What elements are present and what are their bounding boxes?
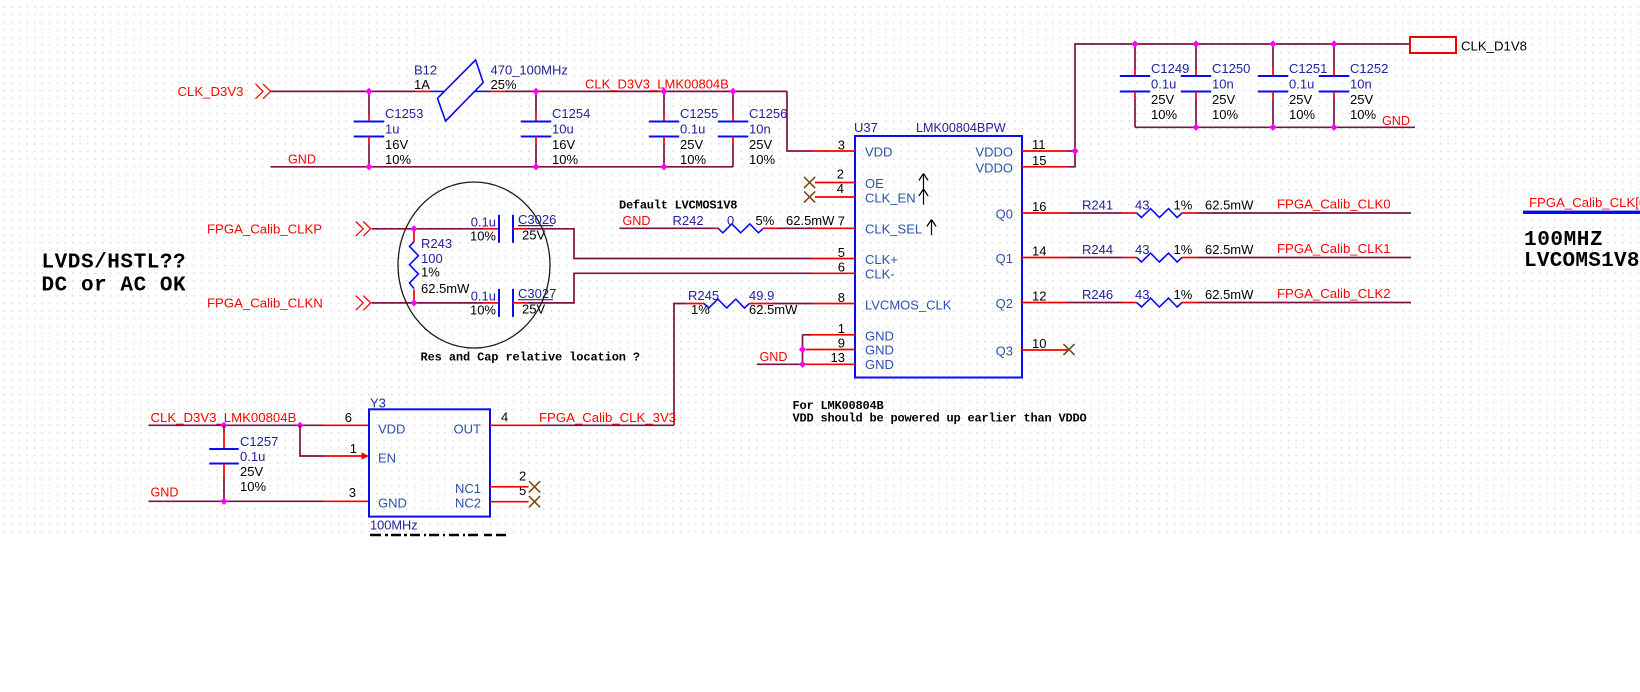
svg-text:6: 6	[345, 410, 352, 425]
svg-text:VDDO: VDDO	[975, 160, 1013, 175]
svg-text:4: 4	[837, 181, 844, 196]
svg-text:5%: 5%	[756, 213, 775, 228]
svg-text:Res and Cap relative location: Res and Cap relative location ?	[421, 351, 641, 365]
junction C1257 top	[220, 422, 227, 429]
svg-text:7: 7	[838, 213, 845, 228]
svg-text:2: 2	[519, 468, 526, 483]
port chevron CLK_D3V3	[256, 84, 263, 99]
svg-text:16V: 16V	[552, 137, 575, 152]
capacitor C1254	[521, 91, 591, 167]
svg-text:R242: R242	[673, 213, 704, 228]
pin 6 CLK- lead	[812, 272, 855, 274]
svg-text:25V: 25V	[1151, 92, 1174, 107]
svg-text:C1250: C1250	[1212, 61, 1250, 76]
svg-text:0: 0	[727, 213, 734, 228]
wire R245 to LVCMOS_CLK	[773, 303, 812, 305]
svg-text:10%: 10%	[1212, 107, 1238, 122]
svg-text:VDDO: VDDO	[975, 145, 1013, 160]
junction CLKN/R243	[410, 299, 417, 306]
pin 11 VDDO lead	[1022, 150, 1068, 152]
svg-text:470_100MHz: 470_100MHz	[491, 62, 568, 77]
svg-text:OE: OE	[865, 176, 884, 191]
pin 2 NC1 lead	[490, 486, 529, 488]
svg-text:8: 8	[838, 290, 845, 305]
svg-text:GND: GND	[865, 357, 894, 372]
svg-text:0.1u: 0.1u	[1289, 76, 1314, 91]
capacitor C1256	[718, 91, 788, 167]
capacitor C1257	[209, 425, 278, 501]
svg-text:14: 14	[1032, 244, 1046, 259]
wire FPGA_Calib_CLKN	[372, 302, 484, 304]
pin 4 CLK_EN lead	[815, 196, 855, 198]
svg-text:0.1u: 0.1u	[680, 121, 705, 136]
no-connect X NC2	[529, 496, 540, 507]
svg-text:25V: 25V	[1350, 92, 1373, 107]
svg-text:16V: 16V	[385, 137, 408, 152]
wire CLK_D3V3_LMK00804B to Y3	[149, 424, 325, 426]
svg-text:Q1: Q1	[996, 251, 1013, 266]
svg-text:VDD: VDD	[378, 421, 405, 436]
pin 3 GND lead Y3	[324, 500, 369, 502]
svg-text:U37: U37	[854, 120, 878, 135]
svg-text:FPGA_Calib_CLK_3V3: FPGA_Calib_CLK_3V3	[539, 410, 676, 425]
svg-text:NC1: NC1	[455, 481, 481, 496]
svg-text:Q3: Q3	[996, 344, 1013, 359]
svg-text:3: 3	[349, 485, 356, 500]
svg-text:GND: GND	[1382, 114, 1410, 128]
resistor R242	[673, 213, 836, 233]
svg-text:10%: 10%	[680, 152, 706, 167]
wire EN branch	[300, 425, 324, 456]
pin 5 CLK+ lead	[812, 258, 855, 260]
wire VDDO rail to CLK_D1V8	[1075, 44, 1410, 151]
svg-text:10%: 10%	[470, 302, 496, 317]
junction VDDO/C1252	[1330, 40, 1337, 47]
svg-text:9: 9	[838, 336, 845, 351]
pin 5 NC2 lead	[490, 501, 529, 503]
wire CLK+ to U37	[528, 229, 812, 259]
annotation ellipse	[398, 182, 550, 348]
svg-text:C3027: C3027	[518, 286, 556, 301]
capacitor C3026	[470, 212, 556, 244]
svg-text:R241: R241	[1082, 197, 1113, 212]
svg-text:25V: 25V	[1212, 92, 1235, 107]
svg-text:R243: R243	[421, 236, 452, 251]
svg-text:10n: 10n	[749, 121, 771, 136]
junction CLK_D3V3/C1253	[365, 88, 372, 95]
svg-text:R244: R244	[1082, 242, 1113, 257]
svg-text:10: 10	[1032, 336, 1046, 351]
no-connect X pin 4	[804, 191, 815, 202]
wire FPGA_Calib_CLK_3V3 riser	[674, 304, 685, 426]
svg-text:GND: GND	[865, 329, 894, 344]
junction CLK_D3V3/C1255	[660, 88, 667, 95]
capacitor C1249	[1120, 44, 1190, 127]
svg-text:NC2: NC2	[455, 495, 481, 510]
svg-text:GND: GND	[760, 350, 788, 364]
svg-text:25%: 25%	[491, 77, 517, 92]
pin 3 VDD lead	[812, 150, 855, 152]
svg-text:25V: 25V	[680, 137, 703, 152]
svg-text:16: 16	[1032, 199, 1046, 214]
junction CLK_D3V3/C1254	[532, 88, 539, 95]
capacitor C1252	[1319, 44, 1389, 127]
svg-text:62.5mW: 62.5mW	[421, 281, 470, 296]
svg-text:13: 13	[831, 350, 845, 365]
svg-text:Y3: Y3	[370, 396, 386, 411]
svg-text:DC or AC OK: DC or AC OK	[42, 274, 187, 297]
svg-text:CLK_SEL: CLK_SEL	[865, 222, 922, 237]
svg-text:C1249: C1249	[1151, 61, 1189, 76]
svg-text:C1255: C1255	[680, 106, 718, 121]
svg-text:1u: 1u	[385, 121, 399, 136]
svg-text:CLK+: CLK+	[865, 252, 898, 267]
svg-text:R246: R246	[1082, 287, 1113, 302]
svg-text:C1253: C1253	[385, 106, 423, 121]
wire GND rail Y3	[149, 500, 325, 502]
svg-text:FPGA_Calib_CLK2: FPGA_Calib_CLK2	[1277, 286, 1391, 301]
Y3 clipped part number text	[370, 534, 506, 537]
wire CLK_D3V3 to VDD pin	[787, 91, 812, 151]
svg-text:0.1u: 0.1u	[471, 214, 496, 229]
svg-text:FPGA_Calib_CLK0: FPGA_Calib_CLK0	[1277, 197, 1391, 212]
svg-text:10u: 10u	[552, 121, 574, 136]
wire Q output to R244	[1068, 257, 1122, 259]
junction GND/C1251	[1269, 124, 1276, 131]
wire Q output to R241	[1068, 212, 1122, 214]
svg-text:0.1u: 0.1u	[471, 288, 496, 303]
pin 9 GND lead	[806, 349, 855, 351]
svg-text:62.5mW: 62.5mW	[1205, 242, 1254, 257]
no-connect X NC1	[529, 481, 540, 492]
svg-text:C1256: C1256	[749, 106, 787, 121]
svg-text:62.5mW: 62.5mW	[1205, 197, 1254, 212]
wire Q output to R246	[1068, 302, 1122, 304]
svg-text:10%: 10%	[385, 152, 411, 167]
wire GND rail top-left	[271, 166, 733, 168]
junction GND/C1255	[660, 163, 667, 170]
svg-text:2: 2	[837, 166, 844, 181]
svg-text:CLK-: CLK-	[865, 267, 895, 282]
svg-text:B12: B12	[414, 62, 437, 77]
junction GND/C1252	[1330, 124, 1337, 131]
svg-text:GND: GND	[378, 495, 407, 510]
pin 4 OUT lead	[490, 424, 540, 426]
wire R242 to CLK_SEL	[779, 227, 812, 229]
pin 8 LVCMOS_CLK lead	[812, 303, 855, 305]
svg-text:10%: 10%	[1289, 107, 1315, 122]
svg-text:1%: 1%	[1174, 242, 1193, 257]
svg-text:R245: R245	[688, 288, 719, 303]
svg-text:1%: 1%	[421, 264, 440, 279]
junction EN branch	[296, 422, 303, 429]
resistor R244	[1082, 242, 1254, 262]
port chevron FPGA_Calib_CLKN	[356, 296, 363, 311]
wire GND rail top-right	[1135, 126, 1415, 128]
svg-text:3: 3	[838, 137, 845, 152]
junction GND pin9	[799, 346, 806, 353]
wire FPGA_Calib_CLKP	[372, 228, 484, 230]
svg-text:Q2: Q2	[996, 296, 1013, 311]
svg-text:CLK_D3V3: CLK_D3V3	[178, 84, 244, 99]
junction GND/C1254	[532, 163, 539, 170]
svg-text:5: 5	[519, 483, 526, 498]
junction CLKP/R243	[410, 225, 417, 232]
svg-text:10%: 10%	[1151, 107, 1177, 122]
ferrite bead B12	[414, 60, 568, 121]
pin 2 OE lead	[815, 182, 855, 184]
pin type arrow CLK_SEL	[927, 220, 936, 236]
svg-text:43: 43	[1135, 242, 1149, 257]
junction VDDO/C1251	[1269, 40, 1276, 47]
op-amp U37 body LMK00804BPW	[855, 136, 1022, 378]
pin 1 EN lead with arrow	[324, 455, 362, 457]
svg-text:LVCMOS_CLK: LVCMOS_CLK	[865, 297, 952, 312]
junction VDDO/C1250	[1192, 40, 1199, 47]
svg-text:0.1u: 0.1u	[240, 449, 265, 464]
resistor R246	[1082, 287, 1254, 307]
svg-text:15: 15	[1032, 153, 1046, 168]
svg-text:FPGA_Calib_CLKP: FPGA_Calib_CLKP	[207, 221, 322, 236]
capacitor C1255	[649, 91, 719, 167]
svg-text:11: 11	[1032, 137, 1046, 152]
wire FPGA_Calib_CLK1	[1197, 257, 1411, 259]
svg-text:VDD should be powered up earli: VDD should be powered up earlier than VD…	[793, 411, 1087, 425]
pin 10 Q3 lead	[1022, 349, 1068, 351]
svg-text:CLK_D3V3_LMK00804B: CLK_D3V3_LMK00804B	[585, 77, 729, 92]
junction GND pin13	[799, 361, 806, 368]
svg-text:1A: 1A	[414, 77, 430, 92]
wire VDDO pins to rail	[1068, 151, 1075, 167]
svg-text:GND: GND	[623, 214, 651, 228]
svg-text:1: 1	[838, 321, 845, 336]
wire GND feed to U37	[757, 363, 806, 365]
svg-text:43: 43	[1135, 287, 1149, 302]
pin 14 Q1 lead	[1022, 257, 1068, 259]
pin 12 Q2 lead	[1022, 302, 1068, 304]
wire CLK_D3V3 horizontal	[271, 90, 415, 92]
oscillator Y3 body	[369, 409, 490, 516]
svg-text:5: 5	[838, 245, 845, 260]
svg-text:1%: 1%	[691, 302, 710, 317]
svg-text:LVDS/HSTL??: LVDS/HSTL??	[42, 251, 187, 274]
svg-text:10%: 10%	[470, 228, 496, 243]
svg-text:100MHz: 100MHz	[370, 517, 418, 532]
svg-text:49.9: 49.9	[749, 288, 774, 303]
wire FPGA_Calib_CLK0	[1197, 212, 1411, 214]
svg-text:12: 12	[1032, 289, 1046, 304]
svg-text:C1251: C1251	[1289, 61, 1327, 76]
wire GND to R242	[620, 227, 713, 229]
svg-text:FPGA_Calib_CLKN: FPGA_Calib_CLKN	[207, 295, 323, 310]
junction VDDO	[1071, 147, 1078, 154]
svg-text:1: 1	[350, 441, 357, 456]
wire CLK- to U37	[528, 273, 812, 303]
resistor R243	[410, 229, 471, 303]
pin 6 VDD lead Y3	[324, 424, 369, 426]
port chevron FPGA_Calib_CLKP	[356, 222, 363, 237]
junction GND/C1250	[1192, 124, 1199, 131]
svg-text:EN: EN	[378, 450, 396, 465]
pin 16 Q0 lead	[1022, 212, 1068, 214]
svg-text:C1257: C1257	[240, 434, 278, 449]
svg-text:CLK_EN: CLK_EN	[865, 190, 916, 205]
svg-text:100MHZ: 100MHZ	[1524, 229, 1603, 252]
svg-text:6: 6	[838, 259, 845, 274]
svg-text:0.1u: 0.1u	[1151, 76, 1176, 91]
svg-text:62.5mW: 62.5mW	[786, 213, 835, 228]
junction CLK_D3V3/C1256	[729, 88, 736, 95]
capacitor C1253	[354, 91, 424, 167]
svg-text:4: 4	[501, 409, 508, 424]
svg-text:62.5mW: 62.5mW	[1205, 287, 1254, 302]
svg-text:GND: GND	[151, 486, 179, 500]
wire FPGA_Calib_CLK2	[1197, 302, 1411, 304]
capacitor C1251	[1258, 44, 1328, 127]
svg-text:C1254: C1254	[552, 106, 590, 121]
svg-text:1%: 1%	[1174, 197, 1193, 212]
capacitor C1250	[1181, 44, 1251, 127]
svg-text:10n: 10n	[1212, 76, 1234, 91]
no-connect X pin 10 Q3	[1063, 344, 1074, 355]
junction VDDO/C1249	[1131, 40, 1138, 47]
pin type arrow OE	[919, 174, 928, 190]
no-connect X pin 2	[804, 177, 815, 188]
svg-text:1%: 1%	[1174, 287, 1193, 302]
bus underline	[1523, 211, 1640, 214]
svg-text:GND: GND	[288, 153, 316, 167]
resistor R245	[685, 288, 798, 317]
svg-text:LMK00804BPW: LMK00804BPW	[916, 121, 1006, 135]
svg-text:43: 43	[1135, 197, 1149, 212]
capacitor C3027	[470, 286, 556, 318]
svg-text:10%: 10%	[1350, 107, 1376, 122]
resistor R241	[1082, 197, 1254, 217]
svg-text:C1252: C1252	[1350, 61, 1388, 76]
svg-text:10%: 10%	[552, 152, 578, 167]
pin type arrow CLK_EN	[919, 189, 928, 205]
svg-text:Default LVCMOS1V8: Default LVCMOS1V8	[619, 198, 737, 212]
svg-text:10%: 10%	[240, 479, 266, 494]
svg-text:FPGA_Calib_CLK[0..2]: FPGA_Calib_CLK[0..2]	[1529, 195, 1640, 210]
svg-text:LVCOMS1V8: LVCOMS1V8	[1524, 250, 1640, 273]
junction C1257 bottom	[220, 498, 227, 505]
pin 15 VDDO lead	[1022, 166, 1068, 168]
junction GND/C1253	[365, 163, 372, 170]
svg-text:25V: 25V	[240, 464, 263, 479]
svg-text:CLK_D1V8: CLK_D1V8	[1461, 39, 1527, 54]
svg-text:Q0: Q0	[996, 207, 1013, 222]
svg-text:10%: 10%	[749, 152, 775, 167]
svg-text:10n: 10n	[1350, 76, 1372, 91]
svg-text:25V: 25V	[1289, 92, 1312, 107]
wire FPGA_Calib_CLK_3V3	[540, 424, 674, 426]
svg-text:VDD: VDD	[865, 145, 892, 160]
svg-text:FPGA_Calib_CLK1: FPGA_Calib_CLK1	[1277, 241, 1391, 256]
svg-text:OUT: OUT	[454, 421, 482, 436]
svg-text:25V: 25V	[749, 137, 772, 152]
svg-text:GND: GND	[865, 343, 894, 358]
pin 7 CLK_SEL lead	[812, 227, 855, 229]
port CLK_D1V8	[1410, 37, 1456, 53]
pin 13 GND lead	[806, 363, 855, 365]
pin 1 GND lead	[803, 334, 813, 336]
